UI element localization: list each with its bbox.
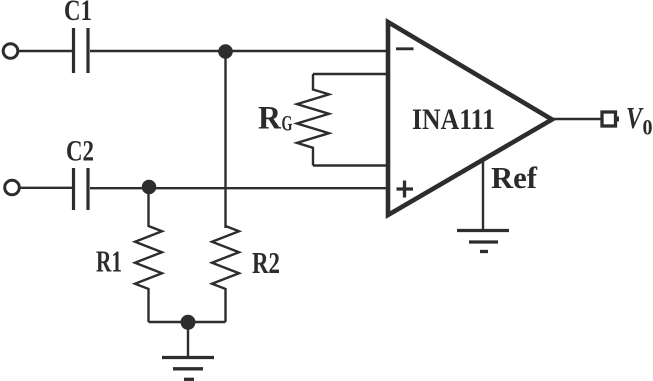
bottom wire joining R1 and R2 <box>149 321 226 323</box>
wire input1 to C1 <box>19 50 73 52</box>
svg-text:R: R <box>258 101 282 137</box>
wire C1 to op-amp minus input <box>90 50 388 52</box>
resistor R2 <box>212 226 239 322</box>
wire junction to ground <box>187 322 189 356</box>
resistor R1 <box>135 188 162 322</box>
svg-text:Ref: Ref <box>491 160 538 195</box>
wire Ref to ground <box>482 158 484 230</box>
svg-text:0: 0 <box>643 115 653 140</box>
capacitor C1 <box>74 28 89 73</box>
input terminal 1 (top left) <box>3 44 18 59</box>
svg-text:C2: C2 <box>66 135 94 168</box>
capacitor C2 <box>74 168 89 210</box>
ground (Ref) <box>457 229 509 232</box>
wire C2 to op-amp plus input <box>90 187 388 189</box>
wire RG bottom to op-amp <box>313 164 388 166</box>
svg-text:INA111: INA111 <box>412 103 495 136</box>
svg-text:G: G <box>282 111 293 136</box>
wire input2 to C2 <box>20 187 72 189</box>
wire RG top to op-amp <box>313 73 388 75</box>
input terminal 2 (lower left) <box>5 180 20 195</box>
node junction on top wire <box>219 45 233 59</box>
wire junction down to R2 <box>224 51 226 228</box>
svg-text:V: V <box>626 100 644 135</box>
output wire <box>552 118 601 120</box>
svg-text:C1: C1 <box>64 0 92 27</box>
ground (bottom) <box>162 356 214 359</box>
op-amp U1 triangle <box>388 22 552 215</box>
node junction at ground tap <box>181 315 195 329</box>
plus sign (non-inverting input) <box>397 181 414 198</box>
minus sign (inverting input) <box>396 47 414 50</box>
output terminal square <box>602 112 616 126</box>
node junction on lower wire <box>142 180 156 194</box>
svg-text:R1: R1 <box>96 244 122 279</box>
svg-text:R2: R2 <box>252 245 280 280</box>
resistor RG <box>297 74 329 166</box>
terminal nub <box>616 117 620 122</box>
